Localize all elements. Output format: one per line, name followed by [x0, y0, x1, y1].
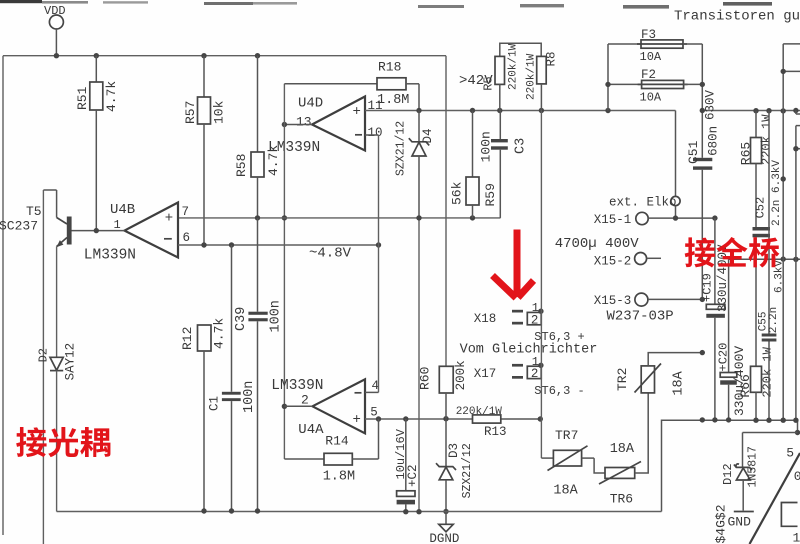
svg-text:100n: 100n	[242, 381, 257, 413]
svg-text:+: +	[353, 104, 361, 120]
capacitor C2 10u/16V	[405, 419, 407, 491]
svg-text:SZX21/12: SZX21/12	[461, 443, 474, 498]
wire fuse right leg x702	[701, 44, 703, 158]
svg-text:D12: D12	[721, 463, 735, 485]
svg-text:C39: C39	[234, 307, 249, 331]
svg-text:LM339N: LM339N	[271, 378, 323, 394]
svg-text:SC237: SC237	[0, 219, 38, 234]
wire U4D pin10 to U4A pin4 x378.5	[365, 134, 379, 136]
svg-text:C52: C52	[754, 197, 768, 219]
svg-text:F3: F3	[641, 28, 656, 42]
power terminal VDD	[49, 15, 63, 29]
wire y110.5 (U4D pin11 bus)	[365, 110, 676, 112]
svg-text:~4.8V: ~4.8V	[309, 246, 352, 262]
svg-text:56k: 56k	[450, 181, 465, 205]
resistor R12	[198, 325, 212, 351]
svg-text:1: 1	[532, 301, 539, 315]
svg-text:DGND: DGND	[429, 532, 459, 544]
ground DGND	[443, 509, 448, 514]
wire ext.Elko drop x675.5	[675, 111, 677, 197]
fuse F3 10A	[608, 43, 641, 45]
svg-text:7: 7	[182, 205, 190, 219]
svg-text:1N5817: 1N5817	[747, 446, 760, 487]
connector X18 ST6,3 +	[512, 310, 523, 313]
varistor TR6 18A	[605, 468, 635, 479]
svg-text:680n: 680n	[707, 126, 721, 156]
svg-text:R58: R58	[234, 154, 249, 177]
svg-text:220k 1W: 220k 1W	[760, 346, 774, 397]
wire fuse left leg x608	[607, 44, 609, 111]
resistor R65 220k 1W	[755, 111, 757, 138]
svg-text:+: +	[353, 412, 361, 428]
svg-text:0: 0	[794, 469, 800, 484]
svg-text:R60: R60	[418, 367, 433, 390]
svg-text:C51: C51	[686, 140, 701, 164]
red annotation text: jie guang ou (connect optocoupler)	[16, 427, 46, 457]
svg-text:LM339N: LM339N	[268, 140, 320, 156]
resistor R57	[203, 56, 205, 97]
svg-text:R59: R59	[483, 183, 498, 206]
svg-text:TR7: TR7	[555, 428, 578, 443]
connector X17 ST6,3 -	[512, 364, 523, 367]
svg-text:R13: R13	[484, 425, 507, 439]
wire TR6 to TR2	[635, 393, 649, 473]
wire U4B output to T5 base	[71, 230, 124, 232]
svg-text:220k/1W: 220k/1W	[526, 53, 538, 100]
capacitor C52 2.2n 6.3kV	[755, 164, 757, 228]
wire U4A output	[284, 405, 312, 407]
resistor R5	[500, 43, 541, 56]
wire TR7 to TR6	[594, 458, 605, 473]
left rail wire x3	[2, 56, 4, 535]
svg-text:TR2: TR2	[615, 368, 630, 391]
svg-text:+C20: +C20	[717, 343, 731, 372]
node wire y218 (U4B+ to C3)	[178, 217, 501, 219]
svg-text:$4G$2: $4G$2	[714, 504, 729, 543]
zener diode D4 SZX21/12	[418, 111, 420, 142]
op-amp U4D (LM339N)	[312, 97, 365, 151]
op-amp (partial at right edge)	[750, 453, 800, 544]
svg-text:R12: R12	[180, 327, 195, 350]
svg-text:5: 5	[786, 445, 794, 460]
svg-text:220k 1W: 220k 1W	[760, 114, 774, 165]
svg-text:R8: R8	[545, 51, 559, 66]
svg-text:X15-3: X15-3	[594, 294, 632, 308]
svg-text:SAY12: SAY12	[64, 343, 78, 381]
wire x419 lower	[418, 218, 420, 512]
capacitor C19 330u/400V	[714, 218, 716, 304]
svg-text:X18: X18	[474, 312, 497, 326]
wire U4A pin5 node y419	[365, 418, 473, 420]
svg-text:2: 2	[531, 367, 539, 381]
svg-text:U4D: U4D	[298, 96, 323, 112]
svg-text:D3: D3	[447, 443, 461, 458]
svg-text:2.2n 6.3kV: 2.2n 6.3kV	[771, 160, 783, 226]
svg-text:R14: R14	[325, 434, 349, 449]
svg-text:R18: R18	[378, 60, 401, 75]
svg-text:X15-2: X15-2	[594, 255, 632, 269]
capacitor C20 330u/400V	[728, 259, 730, 372]
svg-text:R65: R65	[739, 142, 754, 165]
varistor TR2 18A	[641, 366, 654, 393]
capacitor C55 2.2n 6.3kV	[768, 111, 770, 334]
svg-text:630V: 630V	[704, 89, 718, 120]
wire y259	[729, 258, 800, 260]
VDD bus wire y56	[3, 55, 446, 57]
wire T5 collector rail x43	[42, 190, 44, 544]
svg-text:10A: 10A	[640, 50, 662, 64]
zener diode D3 SZX21/12	[445, 419, 447, 467]
capacitor C39 100n	[257, 218, 259, 312]
diode D2 SAY12	[50, 357, 63, 370]
svg-text:GND: GND	[728, 514, 752, 529]
bottom bus wire y511.5	[57, 511, 662, 513]
red annotation text: jie quan qiao (connect full bridge)	[685, 237, 715, 267]
wire node x284 vertical	[283, 84, 285, 459]
svg-text:4.7k: 4.7k	[104, 81, 119, 112]
transistor T5 SC237	[67, 217, 72, 245]
svg-text:U4A: U4A	[298, 422, 324, 438]
svg-text:ext. Elko: ext. Elko	[609, 196, 677, 210]
svg-text:1.8M: 1.8M	[323, 469, 355, 484]
resistor R13 220k/1W	[473, 415, 501, 423]
resistor R60 200k	[439, 366, 453, 393]
op-amp U4B (LM339N)	[125, 203, 179, 258]
resistor R14 1.8M	[284, 458, 324, 460]
svg-text:4.7k: 4.7k	[212, 318, 227, 349]
svg-text:W237-03P: W237-03P	[607, 309, 674, 325]
svg-text:4700µ 400V: 4700µ 400V	[555, 236, 640, 252]
svg-text:SZX21/12: SZX21/12	[395, 121, 408, 176]
svg-text:R51: R51	[75, 86, 90, 110]
wire pin6 node y245	[178, 244, 379, 246]
pad circle ext. Elko	[671, 196, 680, 205]
svg-text:X17: X17	[474, 367, 497, 381]
svg-text:R57: R57	[183, 101, 198, 124]
svg-text:10A: 10A	[640, 90, 662, 104]
svg-text:D2: D2	[37, 348, 51, 362]
svg-text:10: 10	[368, 126, 383, 140]
svg-text:2: 2	[531, 313, 539, 327]
svg-text:1.8M: 1.8M	[377, 93, 409, 108]
wire U4D output to node x284	[284, 124, 312, 126]
svg-text:+C19: +C19	[701, 273, 715, 302]
capacitor C51 680n 630V	[693, 158, 712, 161]
svg-text:R66: R66	[738, 374, 753, 397]
svg-text:2.2n: 2.2n	[768, 307, 780, 333]
resistor R18	[284, 83, 377, 85]
wire T5 emitter rail x56	[56, 247, 58, 358]
svg-text:100n: 100n	[479, 131, 494, 162]
capacitor C1 100n	[231, 245, 233, 392]
svg-text:220k/1W: 220k/1W	[508, 43, 520, 90]
svg-text:200k: 200k	[454, 360, 468, 390]
resistor R66 220k 1W	[751, 366, 762, 392]
wire right bus y420	[662, 420, 798, 511]
resistor R58	[257, 56, 259, 152]
fuse F2 10A	[608, 83, 642, 85]
svg-text:D4: D4	[421, 128, 435, 143]
svg-text:TR6: TR6	[610, 492, 633, 507]
svg-text:F2: F2	[641, 68, 656, 82]
wire right rail x783	[782, 44, 784, 420]
svg-text:C3: C3	[514, 138, 529, 154]
svg-text:U4B: U4B	[110, 202, 135, 218]
svg-text:X15-1: X15-1	[594, 213, 632, 227]
op-amp U4A (LM339N)	[312, 379, 365, 433]
junction VDD bus	[54, 53, 59, 58]
diode D12 1N5817	[743, 432, 798, 434]
svg-text:1: 1	[793, 530, 800, 544]
wire right rail x796	[795, 111, 797, 115]
svg-text:C1: C1	[208, 396, 222, 411]
svg-text:10k: 10k	[212, 100, 227, 124]
svg-text:Vom Gleichrichter: Vom Gleichrichter	[460, 342, 598, 357]
wire y110.5 right segment	[700, 110, 800, 112]
svg-text:100n: 100n	[269, 300, 284, 332]
svg-text:18A: 18A	[672, 370, 687, 395]
svg-text:6: 6	[183, 231, 191, 245]
resistor R59	[472, 111, 474, 178]
red annotation arrow	[493, 230, 534, 299]
wire x446 vertical (main)	[445, 56, 447, 367]
svg-text:+C2: +C2	[406, 464, 420, 487]
resistor R8	[537, 56, 547, 84]
svg-text:18A: 18A	[553, 483, 578, 498]
svg-text:2: 2	[301, 392, 309, 407]
svg-text:R5: R5	[482, 76, 496, 90]
svg-text:T5: T5	[26, 204, 42, 219]
wire x541 vertical	[540, 111, 542, 459]
varistor TR7 18A	[553, 450, 581, 466]
svg-text:18A: 18A	[610, 442, 635, 457]
svg-text:13: 13	[296, 115, 312, 130]
svg-text:+: +	[165, 211, 173, 227]
capacitor C3	[499, 111, 501, 140]
svg-text:LM339N: LM339N	[84, 248, 136, 264]
svg-text:Transistoren gu: Transistoren gu	[674, 9, 800, 25]
resistor R51	[95, 56, 97, 82]
svg-text:220k/1W: 220k/1W	[456, 406, 503, 418]
